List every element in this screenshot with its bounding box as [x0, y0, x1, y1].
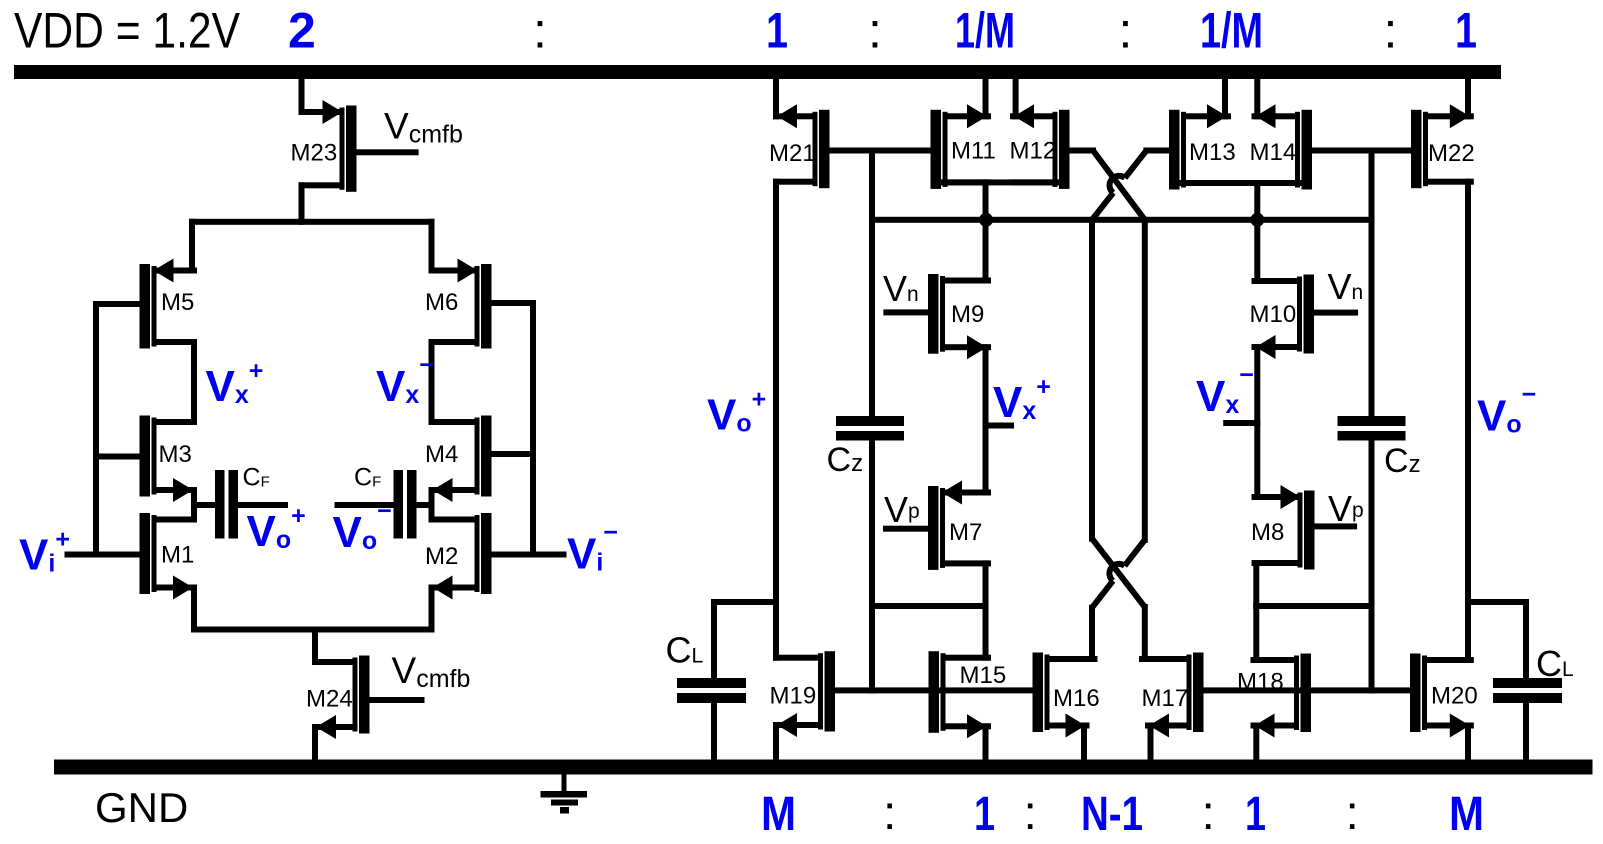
- svg-text:1: 1: [974, 788, 995, 841]
- svg-text:M12: M12: [1010, 138, 1057, 165]
- svg-text:M11: M11: [951, 138, 996, 165]
- svg-text:M21: M21: [769, 140, 816, 167]
- svg-text::: :: [883, 787, 896, 840]
- svg-text:M2: M2: [425, 543, 458, 570]
- svg-text:M23: M23: [291, 140, 338, 167]
- svg-text:M22: M22: [1428, 140, 1475, 167]
- svg-text::: :: [868, 2, 882, 58]
- svg-text:M20: M20: [1431, 683, 1478, 710]
- svg-text::: :: [1384, 2, 1398, 58]
- svg-text:M24: M24: [306, 686, 353, 713]
- svg-text:M16: M16: [1053, 685, 1100, 712]
- svg-text:M17: M17: [1142, 685, 1189, 712]
- svg-text:M3: M3: [159, 441, 192, 468]
- svg-text:1: 1: [1245, 788, 1266, 841]
- svg-text:N-1: N-1: [1081, 788, 1143, 841]
- svg-text:M10: M10: [1250, 301, 1297, 328]
- svg-text:M: M: [761, 788, 796, 841]
- svg-text:2: 2: [288, 2, 316, 58]
- svg-text:M6: M6: [425, 289, 458, 316]
- svg-text:M19: M19: [770, 683, 817, 710]
- svg-text::: :: [1119, 2, 1133, 58]
- svg-text:M8: M8: [1251, 519, 1284, 546]
- svg-text:M1: M1: [161, 542, 194, 569]
- svg-text:M15: M15: [960, 662, 1007, 689]
- svg-text:M14: M14: [1250, 139, 1297, 166]
- svg-text:1/M: 1/M: [955, 2, 1015, 58]
- svg-text::: :: [1202, 787, 1215, 840]
- svg-text:M4: M4: [425, 441, 458, 468]
- svg-text::: :: [533, 2, 547, 58]
- svg-text:GND: GND: [95, 784, 188, 831]
- svg-text:VDD = 1.2V: VDD = 1.2V: [14, 2, 241, 58]
- svg-text:M5: M5: [161, 289, 194, 316]
- svg-text:M: M: [1449, 788, 1484, 841]
- svg-text::: :: [1346, 787, 1359, 840]
- svg-text:M18: M18: [1237, 669, 1284, 696]
- svg-text:1: 1: [766, 2, 788, 58]
- svg-text:M13: M13: [1189, 139, 1236, 166]
- svg-text:1/M: 1/M: [1200, 2, 1263, 58]
- svg-text:M7: M7: [949, 519, 982, 546]
- svg-text:M9: M9: [951, 301, 984, 328]
- svg-text:1: 1: [1455, 2, 1477, 58]
- svg-text::: :: [1024, 787, 1037, 840]
